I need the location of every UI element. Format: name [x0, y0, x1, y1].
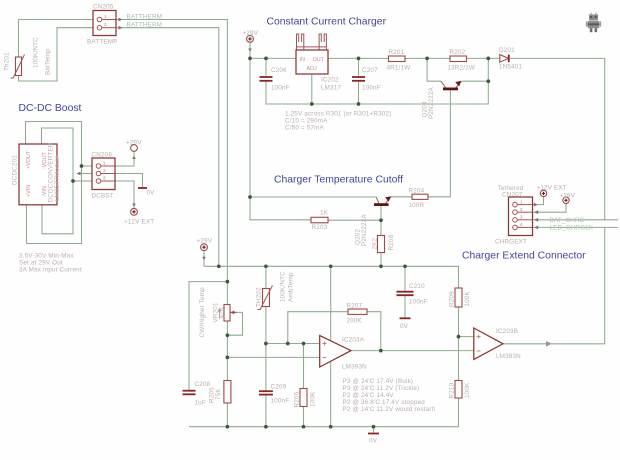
thermistor Th201 — [11, 55, 25, 79]
svg-text:P2 @ 14'C 11.2V would restart!: P2 @ 14'C 11.2V would restart! — [343, 406, 436, 413]
svg-text:Charger Extend Connector: Charger Extend Connector — [462, 251, 586, 262]
svg-text:C206: C206 — [271, 67, 287, 74]
wire Q203 collector from rail junction — [427, 58, 441, 81]
wire vertical from +29V junction down to R203 — [250, 58, 311, 219]
wire CN206 pin2 row to 0V — [79, 174, 143, 188]
svg-text:OUT: OUT — [313, 57, 325, 63]
regulator IC202 LM317 heatsink — [297, 34, 327, 50]
svg-text:R208: R208 — [388, 234, 395, 250]
svg-text:0V: 0V — [400, 323, 409, 330]
arrow into CN206 row2 — [77, 172, 81, 176]
resistor R203 — [311, 217, 328, 223]
wire CN207 pin1 to +12V EXT — [533, 197, 544, 205]
svg-text:IC203B: IC203B — [496, 328, 518, 335]
svg-text:DC-DC Boost: DC-DC Boost — [19, 103, 82, 114]
svg-text:+12V EXT: +12V EXT — [537, 185, 567, 192]
svg-text:C/10 = 290mA: C/10 = 290mA — [285, 118, 328, 125]
arrow CN207 pin2 — [534, 210, 538, 214]
svg-text:100nF: 100nF — [409, 299, 428, 306]
wire TH202 column — [265, 266, 267, 426]
svg-text:+29V: +29V — [197, 238, 213, 245]
capacitor C207 — [352, 77, 365, 81]
svg-text:R201: R201 — [389, 49, 405, 56]
wire C207 bottom — [358, 82, 360, 105]
wire C207 top — [358, 58, 360, 75]
resistor R207 — [348, 309, 367, 314]
svg-text:+VIN: +VIN — [26, 185, 32, 197]
arrow supply charger — [248, 49, 252, 52]
svg-text:100nF: 100nF — [271, 85, 290, 92]
wire R207 right to output — [367, 312, 381, 351]
svg-text:BATTHERM: BATTHERM — [127, 22, 163, 29]
svg-text:Th201: Th201 — [4, 52, 11, 71]
svg-text:C/50 = 57mA: C/50 = 57mA — [285, 125, 325, 132]
wire left tap to C208 — [189, 282, 227, 390]
svg-text:100K: 100K — [464, 382, 471, 398]
svg-text:100K/NTC: 100K/NTC — [33, 37, 40, 68]
capacitor C206 — [260, 77, 273, 81]
transistor Q203 — [441, 81, 462, 89]
svg-text:R210: R210 — [449, 382, 456, 398]
svg-text:CW/Higher Temp: CW/Higher Temp — [199, 287, 206, 338]
arrow BATTHERM 1 — [119, 18, 123, 22]
svg-text:DCDC201: DCDC201 — [12, 155, 19, 185]
svg-text:3A Max input Current: 3A Max input Current — [19, 267, 82, 274]
VR201 CW arrow — [219, 311, 221, 319]
resistor R201 — [389, 56, 406, 62]
supply +29V circle bottom section — [201, 244, 208, 251]
capacitor C208 — [183, 391, 196, 395]
svg-text:47K: 47K — [219, 306, 226, 318]
svg-text:LM393N: LM393N — [342, 364, 367, 371]
IC203A plus input mark — [323, 342, 327, 346]
svg-text:100R: 100R — [409, 202, 425, 209]
svg-text:0V: 0V — [369, 438, 378, 445]
wire R206 column — [303, 344, 305, 427]
svg-text:CN207: CN207 — [502, 192, 523, 199]
svg-text:+29V: +29V — [243, 30, 259, 37]
svg-text:Constant Current Charger: Constant Current Charger — [267, 17, 387, 28]
svg-text:C209: C209 — [271, 384, 287, 391]
svg-text:2K2: 2K2 — [372, 237, 379, 249]
wire wiper rail to IC203A minus input — [227, 356, 319, 358]
ground 0V at C210 — [400, 317, 411, 319]
wire Q202 base to R203/R208 junction — [328, 206, 381, 236]
svg-text:100K: 100K — [464, 290, 471, 306]
svg-text:P2 @ 36.8'C 17.4V stopped: P2 @ 36.8'C 17.4V stopped — [343, 399, 426, 406]
resistor R209 — [455, 288, 462, 307]
ground 0V at CN206 — [138, 187, 147, 189]
svg-text:DCBST: DCBST — [92, 193, 114, 200]
wire CN207 pin2 to +29V — [533, 204, 567, 213]
wire R209 R210 divider column — [459, 307, 474, 427]
svg-text:+29V: +29V — [126, 140, 142, 147]
wire long vertical through IC203A — [330, 266, 332, 426]
resistor R206 — [300, 389, 307, 407]
svg-text:P3 @ 24'C 17.4V (Bulk): P3 @ 24'C 17.4V (Bulk) — [343, 378, 414, 385]
svg-text:P2N2222A: P2N2222A — [361, 213, 368, 246]
wire IC203B output to CHRGEXT pin4 — [503, 227, 605, 343]
arrow BATTHERM 2 — [119, 26, 123, 30]
wire R207 feedback left leg — [288, 312, 348, 344]
capacitor C210 — [397, 292, 414, 296]
svg-text:3.5V-30V Min-Max: 3.5V-30V Min-Max — [19, 253, 74, 260]
wire IC203A output to IC203B minus input — [351, 350, 474, 352]
wire CN206 pin3 row to +12V EXT — [73, 181, 134, 208]
wire C206 top — [265, 58, 267, 75]
wire Th201 loop to CN205 pin1 — [19, 20, 94, 58]
svg-text:P2 @ 24'C 14.4V: P2 @ 24'C 14.4V — [343, 392, 395, 399]
wire Q203 emitter to D201 anode junction — [462, 80, 489, 82]
svg-text:Set at 29V Out: Set at 29V Out — [19, 260, 63, 267]
svg-text:AmbTemp: AmbTemp — [288, 272, 295, 302]
svg-text:100nF: 100nF — [271, 398, 290, 405]
svg-text:P3 @ 24'C 11.2V (Trickle): P3 @ 24'C 11.2V (Trickle) — [343, 385, 420, 392]
svg-text:100K: 100K — [310, 391, 317, 407]
svg-text:1N5401: 1N5401 — [499, 64, 522, 71]
svg-text:1.25V across R301 (or R301+R30: 1.25V across R301 (or R301+R302) — [285, 111, 391, 118]
svg-text:IC202: IC202 — [321, 77, 339, 84]
arrow supply CN206 — [132, 156, 136, 159]
svg-text:IN: IN — [300, 57, 305, 63]
wire R208 bottom to +29V rail — [380, 253, 382, 267]
transistor Q202 — [374, 196, 391, 204]
svg-text:P2N2222A: P2N2222A — [428, 86, 435, 119]
svg-text:LM393N: LM393N — [496, 353, 521, 360]
IC203B plus input mark — [477, 335, 481, 339]
wire BATTHERM net 2 — [102, 28, 219, 267]
svg-text:CN205: CN205 — [93, 4, 114, 11]
svg-text:200K: 200K — [347, 318, 363, 325]
svg-text:100K/NTC: 100K/NTC — [280, 271, 287, 302]
wire LM317 OUT rail with R201 R202 D201 — [328, 58, 605, 219]
supply +29V circle at CN207 — [563, 197, 569, 203]
IC203B minus input mark — [477, 350, 481, 352]
svg-text:D201: D201 — [499, 47, 515, 54]
potentiometer VR201 — [224, 305, 237, 322]
svg-text:R209: R209 — [449, 291, 456, 307]
svg-text:C208: C208 — [195, 381, 211, 388]
module DCDC201 box — [19, 144, 57, 205]
svg-text:C210: C210 — [409, 283, 425, 290]
resistor R208 — [378, 236, 385, 253]
robot icon — [586, 13, 601, 32]
svg-text:Charger Temperature Cutoff: Charger Temperature Cutoff — [274, 175, 403, 186]
resistor R202 — [450, 56, 467, 62]
wire 0V ground stub — [373, 427, 375, 433]
wire DCDC outer loop +VOUT — [26, 122, 82, 244]
wire BATTHERM net 1 — [102, 20, 227, 305]
wire +29V bottom rail — [204, 266, 459, 288]
op-amp IC203B — [474, 328, 503, 359]
wire C206 bottom to ADJ rail — [266, 58, 488, 104]
svg-text:+VOUT: +VOUT — [26, 150, 32, 169]
resistor R210 — [455, 381, 462, 399]
svg-text:LM317: LM317 — [321, 85, 341, 92]
svg-text:R203: R203 — [312, 224, 328, 231]
wire CN206 pin1 row to +29V — [82, 152, 135, 167]
resistor R204 — [412, 194, 428, 199]
ground 0V bottom rail — [368, 433, 379, 435]
wire C210 column — [404, 266, 406, 317]
svg-text:R206: R206 — [294, 391, 301, 407]
IC203A minus input mark — [323, 357, 327, 359]
svg-text:TH202: TH202 — [256, 287, 263, 307]
arrow supply +12V EXT — [132, 204, 136, 207]
wire VR201 wiper loop — [227, 312, 242, 335]
arrow CN207 pin4 — [534, 226, 538, 230]
svg-text:13R2/1W: 13R2/1W — [448, 65, 476, 72]
wire +29V supply stub bottom section — [203, 251, 205, 267]
resistor R205 — [224, 381, 231, 404]
svg-text:100nF: 100nF — [362, 85, 381, 92]
svg-text:1uF: 1uF — [195, 400, 206, 407]
svg-text:BatTemp: BatTemp — [45, 49, 52, 75]
arrow on IC203B output — [546, 341, 552, 347]
svg-text:CHRGEXT: CHRGEXT — [495, 239, 527, 246]
arrow CN207 pin3 — [534, 218, 538, 222]
svg-text:R204: R204 — [409, 188, 425, 195]
wire TH202 divider rail to IC203A plus input — [266, 343, 320, 345]
svg-text:IC203A: IC203A — [342, 337, 365, 344]
svg-text:LED_CHRGLK: LED_CHRGLK — [550, 225, 594, 232]
connector CN205 — [93, 11, 116, 36]
arrow supply bottom section — [202, 257, 206, 260]
svg-text:BATTHERM: BATTHERM — [127, 14, 163, 21]
svg-text:R202: R202 — [450, 49, 466, 56]
connector CN206 — [92, 158, 115, 190]
svg-text:CN206: CN206 — [92, 152, 113, 159]
wire +29V rail to LM317 IN — [250, 57, 296, 59]
regulator IC202 LM317 body — [296, 50, 328, 74]
capacitor C209 — [259, 391, 273, 394]
supply +12V EXT circle at CN206 — [131, 208, 138, 215]
diode D201 — [500, 55, 509, 63]
wire Q202 emitter to R204 — [391, 196, 413, 198]
svg-text:4R1/1W: 4R1/1W — [387, 65, 411, 72]
wire LM317 ADJ pin — [311, 74, 313, 104]
svg-text:BAT_CHRG: BAT_CHRG — [550, 217, 585, 224]
svg-text:R207: R207 — [347, 303, 363, 310]
wire Th201 bottom to CN205 pin2 — [19, 28, 94, 81]
svg-text:+12V EXT: +12V EXT — [124, 219, 154, 226]
wire Q203 base down to R204 — [428, 90, 450, 197]
wire CN207 pin3 BAT_CHRG — [533, 219, 619, 221]
thermistor TH202 — [258, 286, 273, 310]
svg-text:0V: 0V — [147, 190, 156, 197]
wire Q202 collector rail — [250, 196, 376, 198]
svg-text:1K: 1K — [320, 210, 329, 217]
op-amp IC203A — [320, 336, 351, 368]
supply +12V EXT circle at CN207 — [540, 190, 546, 196]
arrow CN207 pin1 — [534, 203, 538, 207]
svg-text:+29V: +29V — [560, 193, 576, 200]
svg-text:C207: C207 — [362, 67, 378, 74]
wire DCDC inner loop -VOUT — [42, 128, 74, 234]
svg-text:ADJ: ADJ — [307, 66, 317, 72]
wire +29V supply stub top charger — [249, 43, 251, 59]
wire CN207 pin4 LED_CHRGLK — [533, 226, 619, 228]
connector CN207 — [509, 197, 533, 236]
svg-text:75K: 75K — [215, 388, 222, 400]
supply +29V circle charger — [247, 36, 254, 43]
wire bottom 0V rail — [189, 426, 459, 428]
supply +29V circle at CN206 — [131, 145, 138, 152]
wire VR201 bottom through R205 — [226, 321, 228, 427]
svg-text:LM2577Module: LM2577Module — [54, 155, 61, 201]
svg-text:BATTEMP: BATTEMP — [87, 39, 118, 46]
